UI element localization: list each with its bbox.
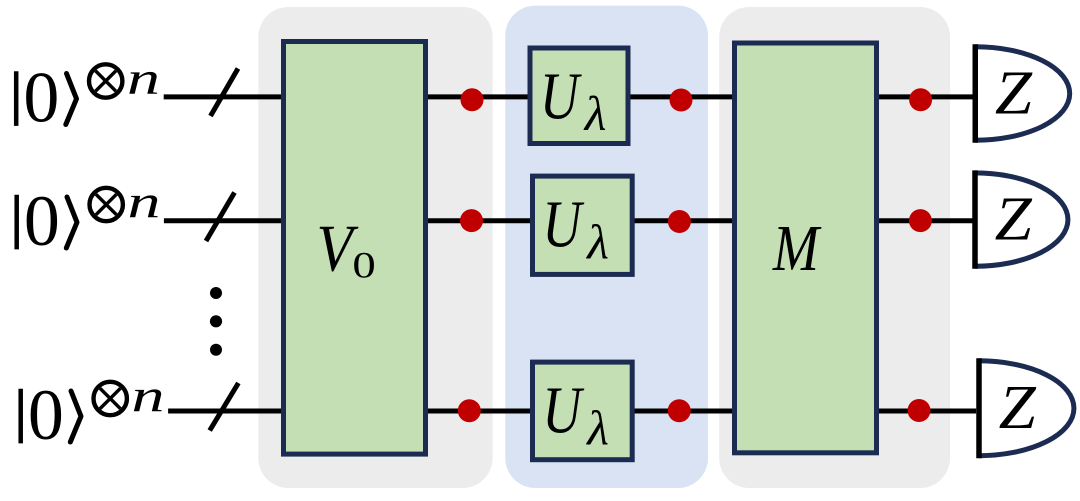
wire row 3 [168, 409, 976, 414]
svg-text:λ: λ [583, 86, 607, 140]
svg-text:0: 0 [352, 245, 375, 286]
bus slash row 1 [211, 69, 239, 117]
svg-text:U: U [542, 188, 585, 262]
svg-text:λ: λ [585, 400, 609, 454]
wire row 2 [164, 218, 973, 223]
node dot row 1 after M [909, 88, 932, 111]
background panel: mixing stage (grey) [719, 7, 950, 488]
measurement Z row 3 [979, 358, 1074, 458]
gate M [735, 43, 877, 453]
measurement Z row 1 [975, 44, 1069, 143]
ket label |0>^(tensor n) row 2 [17, 177, 161, 261]
node dot row 3 after M [908, 399, 931, 422]
node dot row 1 after V0 [461, 88, 484, 111]
wire row 1 [164, 94, 973, 99]
svg-text:Z: Z [995, 184, 1033, 254]
svg-text:0: 0 [23, 58, 59, 138]
svg-text:Z: Z [995, 58, 1033, 128]
ket label |0>^(tensor n) row 3 [21, 371, 165, 455]
gate U_lambda row 2 [533, 176, 633, 274]
node dot row 2 after V0 [460, 209, 483, 232]
svg-text:n: n [127, 53, 160, 104]
svg-text:n: n [128, 177, 161, 228]
svg-text:0: 0 [28, 375, 64, 455]
svg-text:Z: Z [999, 373, 1037, 443]
svg-text:M: M [772, 213, 822, 286]
ket label |0>^(tensor n) row 1 [16, 53, 160, 137]
gate U_lambda row 1 [530, 48, 628, 144]
svg-text:n: n [132, 371, 165, 422]
background panel: U_lambda stage (blue) [505, 6, 708, 488]
svg-text:U: U [542, 374, 585, 448]
bus slash row 2 [206, 193, 235, 242]
svg-text:λ: λ [585, 214, 609, 268]
node dot row 2 after M [909, 209, 932, 232]
node dot row 3 after V0 [458, 399, 481, 422]
gate V0 [284, 42, 426, 455]
bus slash row 3 [210, 383, 239, 431]
measurement Z row 2 [975, 170, 1068, 268]
node dot row 3 after U_lambda [668, 399, 691, 422]
vertical ellipsis between row 2 and row 3 [210, 287, 222, 356]
svg-text:0: 0 [24, 181, 60, 261]
svg-text:U: U [540, 60, 583, 134]
gate U_lambda row 3 [533, 362, 633, 460]
node dot row 2 after U_lambda [668, 210, 691, 233]
node dot row 1 after U_lambda [670, 89, 693, 112]
background panel: state preparation stage (grey) [258, 7, 492, 488]
